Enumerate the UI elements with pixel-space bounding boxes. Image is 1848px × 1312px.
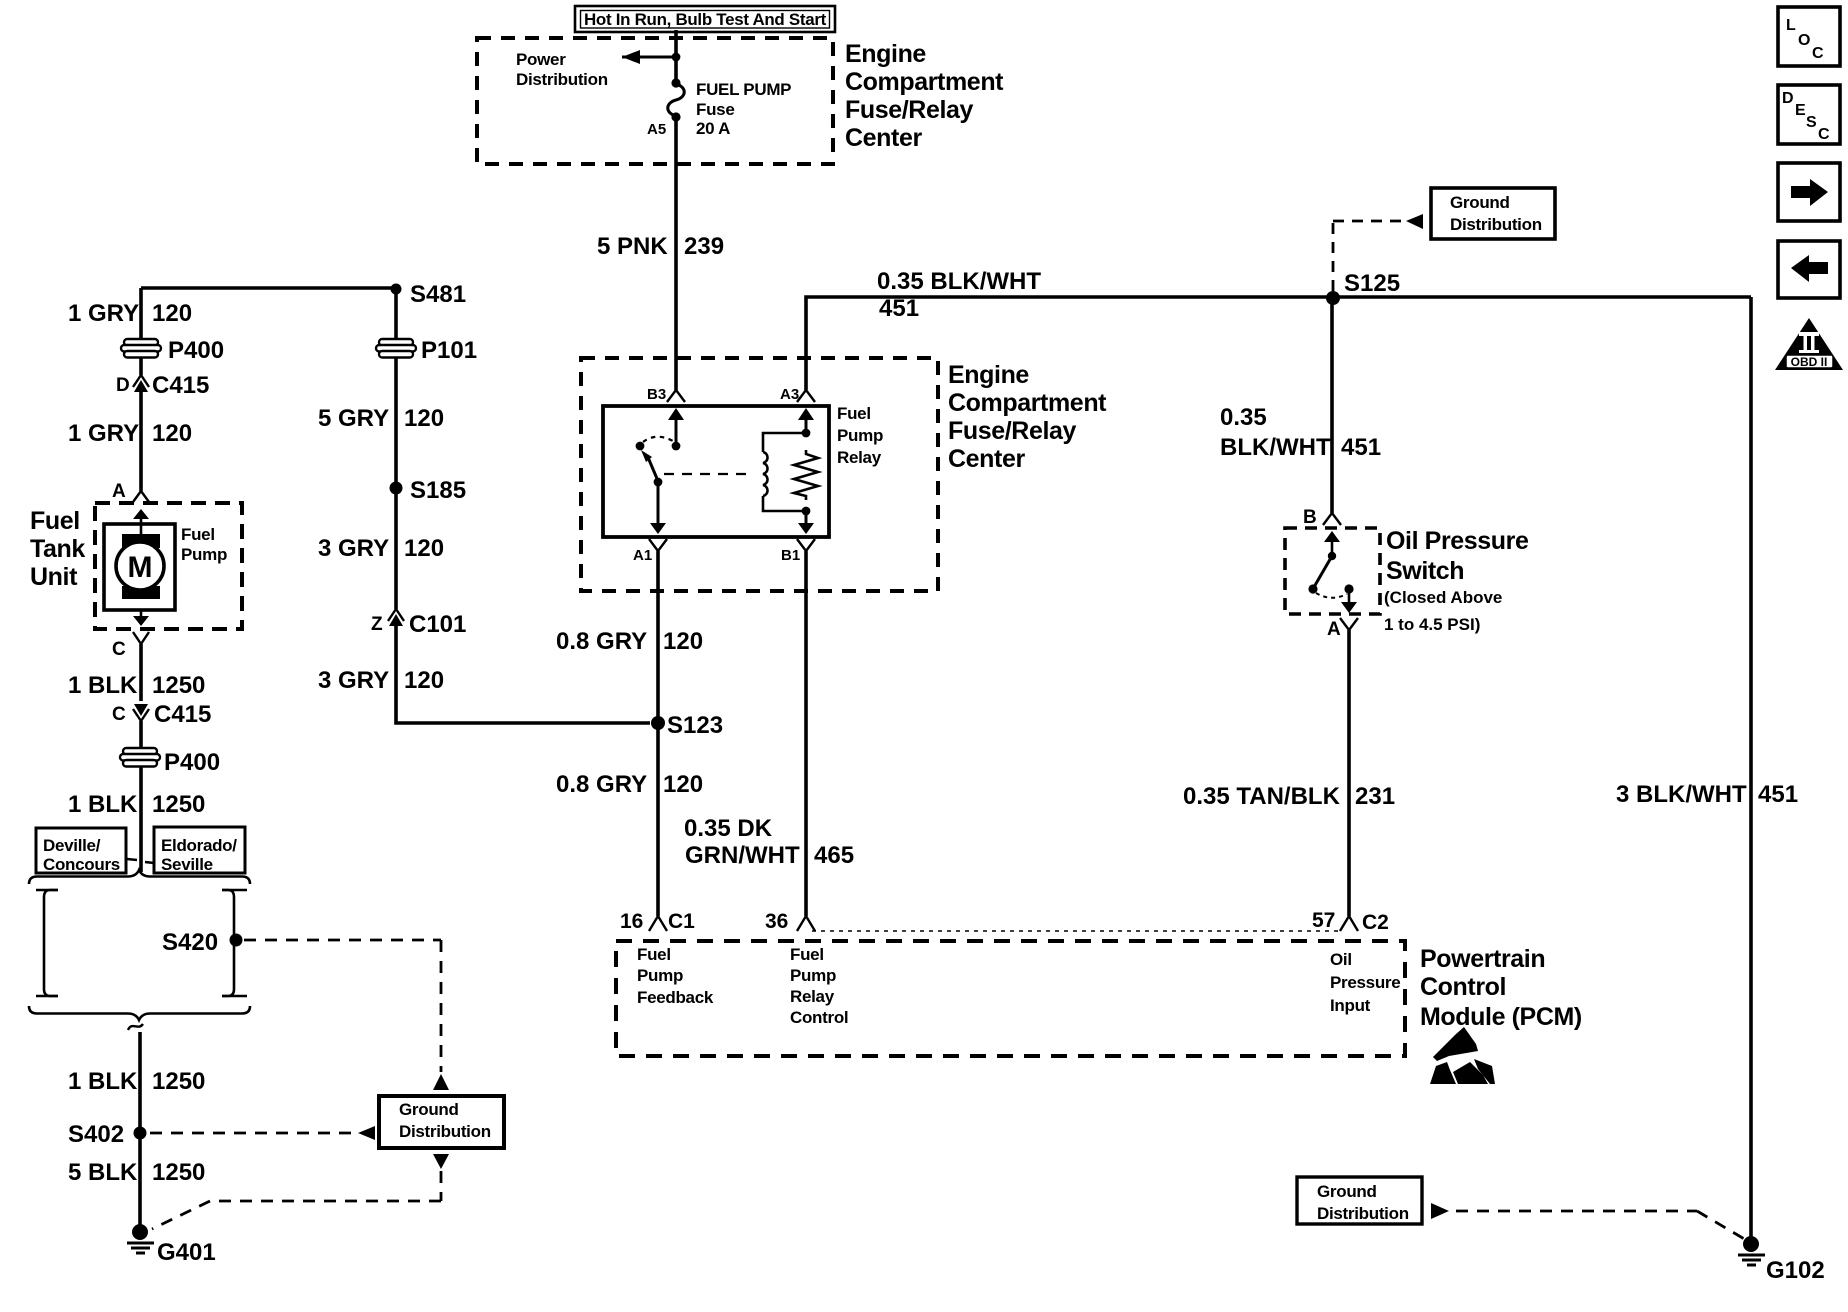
- svg-text:Concours: Concours: [43, 855, 120, 874]
- resistor: [794, 450, 818, 500]
- box: Engine Compartment Fuse/Relay Center (relay, dashed): [581, 358, 938, 591]
- pin A of oil pressure switch: [1327, 618, 1358, 640]
- node S125: [1326, 291, 1340, 305]
- svg-text:S481: S481: [410, 281, 466, 308]
- node: Eldorado/Seville box: [154, 827, 245, 874]
- svg-text:1 BLK: 1 BLK: [68, 791, 138, 818]
- svg-text:C2: C2: [1362, 911, 1389, 934]
- ground G102: [1738, 1236, 1825, 1284]
- svg-text:Seville: Seville: [161, 855, 213, 874]
- svg-text:O: O: [1798, 32, 1810, 49]
- arrow left into S125 dashed run: [1406, 214, 1423, 229]
- svg-text:Distribution: Distribution: [399, 1122, 491, 1141]
- svg-text:A1: A1: [633, 547, 652, 564]
- node: Ground Distribution box (top right): [1431, 188, 1555, 239]
- ground G401: [127, 1224, 216, 1266]
- label: 5 BLK 1250: [68, 1159, 205, 1186]
- wire: below P400 to C415: [139, 358, 143, 375]
- dashed wire: S402 to ground distribution: [150, 1132, 356, 1135]
- svg-text:Compartment: Compartment: [948, 389, 1107, 417]
- icon: LOC: [1778, 7, 1840, 66]
- svg-text:Fuse: Fuse: [696, 100, 734, 119]
- thin dotted internal link pin36 to pin57: [812, 930, 1340, 932]
- wire segment to P400 lower: [139, 721, 143, 749]
- icon: arrow left: [1778, 241, 1840, 298]
- svg-text:Powertrain: Powertrain: [1420, 945, 1545, 973]
- label: 0.35 BLK/WHT 451 (top): [877, 268, 1041, 322]
- coil loop: [763, 433, 806, 452]
- label: 0.35 TAN/BLK 231: [1183, 783, 1395, 810]
- svg-text:0.35 DK: 0.35 DK: [684, 815, 773, 842]
- svg-text:B: B: [1303, 507, 1317, 528]
- svg-text:120: 120: [404, 535, 444, 562]
- svg-text:Switch: Switch: [1386, 557, 1464, 585]
- wire: S125 down to oil pressure switch B: [1330, 297, 1334, 513]
- connector C415 C (lower): [112, 701, 211, 728]
- svg-text:1250: 1250: [152, 1159, 205, 1186]
- svg-text:120: 120: [152, 300, 192, 327]
- svg-text:Distribution: Distribution: [1450, 215, 1542, 234]
- svg-text:Eldorado/: Eldorado/: [161, 836, 237, 855]
- svg-text:A: A: [112, 481, 126, 502]
- svg-text:Distribution: Distribution: [1317, 1204, 1409, 1223]
- svg-text:C: C: [112, 704, 126, 725]
- label: 3 GRY 120 (above C101): [318, 535, 444, 562]
- svg-text:C415: C415: [152, 372, 209, 399]
- node: Deville/Concours box: [36, 828, 126, 874]
- pin 36: [765, 910, 815, 933]
- wire: 5 GRY 120 to S185: [394, 358, 398, 609]
- wire: vertical S481 to P101: [394, 288, 398, 340]
- wire: A1 to S123 to pin 16: [656, 551, 660, 916]
- svg-text:5 PNK: 5 PNK: [597, 233, 668, 260]
- svg-text:(Closed Above: (Closed Above: [1384, 588, 1502, 607]
- svg-text:451: 451: [1341, 434, 1381, 461]
- wire: 1 GRY 120 to fuel tank A: [139, 392, 143, 491]
- brace lower: [29, 1006, 250, 1020]
- icon: arrow right: [1778, 163, 1840, 221]
- label: Powertrain Control Module (PCM): [1420, 945, 1582, 1031]
- svg-text:120: 120: [404, 405, 444, 432]
- dashed wire: box to G401: [152, 1171, 441, 1229]
- svg-text:120: 120: [152, 420, 192, 447]
- pin A of fuel tank unit: [112, 481, 149, 502]
- svg-text:120: 120: [663, 628, 703, 655]
- svg-text:Fuel: Fuel: [837, 404, 871, 423]
- svg-text:1 GRY: 1 GRY: [68, 300, 139, 327]
- label: Fuel Pump Feedback: [637, 945, 714, 1007]
- svg-text:231: 231: [1355, 783, 1395, 810]
- wire: B1 to pin 36: [804, 551, 808, 916]
- svg-text:C: C: [112, 639, 126, 660]
- pin A1: [633, 539, 667, 564]
- box: Fuel Tank Unit (dashed): [95, 503, 242, 629]
- motor M (fuel pump): [104, 524, 175, 610]
- svg-text:451: 451: [879, 295, 919, 322]
- svg-text:1250: 1250: [152, 791, 205, 818]
- svg-text:1250: 1250: [152, 672, 205, 699]
- svg-text:Control: Control: [1420, 973, 1506, 1001]
- svg-text:A: A: [1327, 619, 1341, 640]
- brace upper: [29, 870, 250, 884]
- label: Fuel Pump (tank): [181, 525, 227, 564]
- svg-text:C1: C1: [668, 910, 695, 933]
- svg-text:S123: S123: [667, 712, 723, 739]
- label: 0.35 DK GRN/WHT 465: [684, 815, 854, 869]
- svg-text:0.35 TAN/BLK: 0.35 TAN/BLK: [1183, 783, 1341, 810]
- dashed wire: S420 to ground distribution: [244, 940, 441, 1072]
- svg-text:E: E: [1795, 102, 1806, 119]
- svg-text:Oil: Oil: [1330, 950, 1352, 969]
- wire: 5 PNK 239 from fuse to relay B3: [674, 117, 678, 390]
- svg-text:Pump: Pump: [637, 966, 683, 985]
- wire: oil switch A down to pin 57: [1347, 630, 1351, 916]
- svg-text:B3: B3: [647, 386, 666, 403]
- svg-text:Pressure: Pressure: [1330, 973, 1400, 992]
- svg-text:P101: P101: [421, 337, 477, 364]
- label: Engine Compartment Fuse/Relay Center (relay): [948, 361, 1107, 473]
- wire: A3 up and across to right side: [806, 297, 1751, 390]
- svg-text:Tank: Tank: [30, 535, 85, 563]
- pin 57 C2: [1312, 909, 1389, 934]
- svg-text:C: C: [1812, 45, 1824, 62]
- svg-text:Pump: Pump: [837, 426, 883, 445]
- wire and arrow out of tank pin C: [112, 610, 149, 660]
- svg-text:A5: A5: [647, 121, 666, 138]
- svg-text:D: D: [116, 375, 130, 396]
- connector P400 (upper): [121, 339, 161, 358]
- svg-text:GRN/WHT: GRN/WHT: [685, 842, 800, 869]
- ESD symbol: [1430, 1027, 1495, 1084]
- svg-text:S402: S402: [68, 1121, 124, 1148]
- pin B1: [781, 539, 815, 564]
- svg-text:BLK/WHT: BLK/WHT: [1220, 434, 1331, 461]
- svg-text:G102: G102: [1766, 1257, 1825, 1284]
- icon: DESC: [1778, 85, 1840, 144]
- svg-text:Pump: Pump: [181, 545, 227, 564]
- svg-text:Fuse/Relay: Fuse/Relay: [845, 96, 974, 124]
- wire: power distribution branch with arrow: [622, 50, 680, 64]
- svg-text:Fuel: Fuel: [790, 945, 824, 964]
- svg-text:465: 465: [814, 842, 854, 869]
- box: Engine Compartment Fuse/Relay Center (fuse, dashed): [477, 38, 833, 164]
- fuse: FUEL PUMP Fuse 20 A, A5: [668, 78, 685, 121]
- node S402: [134, 1127, 147, 1140]
- label: 0.35 BLK/WHT 451 (mid): [1220, 404, 1381, 461]
- label: Power Distribution: [516, 50, 608, 89]
- svg-text:1 BLK: 1 BLK: [68, 672, 138, 699]
- label: Fuel Pump Relay Control: [790, 945, 848, 1027]
- wire: 1 BLK 1250 to Deville boxes: [139, 767, 143, 872]
- wire: 3 GRY 120 corner to S123: [396, 626, 650, 723]
- label: 1 GRY 120: [68, 300, 192, 327]
- svg-text:P400: P400: [168, 337, 224, 364]
- label: Fuel Tank Unit: [30, 507, 85, 591]
- svg-text:Pump: Pump: [790, 966, 836, 985]
- svg-text:Ground: Ground: [1450, 193, 1510, 212]
- svg-text:Feedback: Feedback: [637, 988, 714, 1007]
- svg-text:Relay: Relay: [790, 987, 835, 1006]
- label: Oil Pressure Input: [1330, 950, 1400, 1015]
- svg-text:M: M: [128, 551, 153, 584]
- svg-text:Center: Center: [845, 124, 922, 152]
- wire: 1 BLK 1250 to S402 and G401: [138, 1032, 142, 1230]
- connector C415 D: [116, 372, 209, 399]
- svg-text:P400: P400: [164, 749, 220, 776]
- svg-text:FUEL PUMP: FUEL PUMP: [696, 80, 791, 99]
- svg-text:239: 239: [684, 233, 724, 260]
- svg-text:Oil Pressure: Oil Pressure: [1386, 527, 1529, 555]
- wire: hot feed into fuse box: [674, 30, 678, 81]
- wire: right vertical 3 BLK/WHT 451: [1749, 297, 1753, 1242]
- svg-text:0.35: 0.35: [1220, 404, 1267, 431]
- relay switch (left): [636, 408, 684, 534]
- bracket left: [36, 890, 58, 996]
- wire: left drop 1 GRY 120: [139, 288, 143, 340]
- svg-text:Unit: Unit: [30, 563, 78, 591]
- svg-text:C: C: [1818, 126, 1830, 143]
- svg-text:Fuel: Fuel: [637, 945, 671, 964]
- svg-text:120: 120: [404, 667, 444, 694]
- node S420: [230, 934, 243, 947]
- node S123: [651, 716, 665, 730]
- connector C101 Z: [371, 609, 466, 638]
- wire: top-left horizontal to S481: [141, 286, 396, 290]
- label: FUEL PUMP Fuse 20 A: [696, 80, 791, 138]
- svg-text:16: 16: [620, 910, 643, 933]
- label: 5 PNK 239: [597, 233, 724, 260]
- bracket right: [222, 890, 247, 996]
- svg-text:Compartment: Compartment: [845, 68, 1004, 96]
- svg-text:3 GRY: 3 GRY: [318, 667, 389, 694]
- dashed wire: box to G102: [1456, 1211, 1746, 1240]
- svg-text:S420: S420: [162, 929, 218, 956]
- svg-text:Ground: Ground: [1317, 1182, 1377, 1201]
- svg-text:3 BLK/WHT: 3 BLK/WHT: [1616, 781, 1747, 808]
- svg-text:1 GRY: 1 GRY: [68, 420, 139, 447]
- arrow right from box: [1431, 1203, 1449, 1219]
- svg-text:Engine: Engine: [948, 361, 1029, 389]
- node S481: [391, 284, 402, 295]
- arrow into ground distribution box (up): [433, 1074, 449, 1090]
- svg-text:1 to 4.5 PSI): 1 to 4.5 PSI): [1384, 615, 1480, 634]
- dashed wire: S125 up to ground distribution: [1333, 221, 1404, 291]
- pin 16 C1: [620, 910, 695, 933]
- pin B3: [647, 386, 685, 403]
- svg-text:S: S: [1806, 114, 1817, 131]
- svg-text:Fuel: Fuel: [30, 507, 80, 535]
- svg-text:Ground: Ground: [399, 1100, 459, 1119]
- svg-text:Deville/: Deville/: [43, 836, 101, 855]
- pin A3: [780, 386, 815, 403]
- svg-text:S125: S125: [1344, 270, 1400, 297]
- svg-text:Z: Z: [371, 614, 383, 635]
- svg-text:A3: A3: [780, 386, 799, 403]
- svg-text:Relay: Relay: [837, 448, 882, 467]
- svg-text:Fuse/Relay: Fuse/Relay: [948, 417, 1077, 445]
- label: 3 BLK/WHT 451: [1616, 781, 1798, 808]
- relay coil + resistor (right): [763, 408, 818, 534]
- svg-text:57: 57: [1312, 909, 1335, 932]
- svg-text:C101: C101: [409, 611, 466, 638]
- svg-text:Distribution: Distribution: [516, 70, 608, 89]
- arrow below box (down): [433, 1154, 449, 1169]
- svg-text:0.8 GRY: 0.8 GRY: [556, 628, 647, 655]
- svg-text:20 A: 20 A: [696, 119, 730, 138]
- svg-text:C415: C415: [154, 701, 211, 728]
- svg-text:5 GRY: 5 GRY: [318, 405, 389, 432]
- label: Engine Compartment Fuse/Relay Center (top): [845, 40, 1004, 152]
- node S185: [390, 482, 403, 495]
- node: Ground Distribution box (bottom right): [1297, 1177, 1422, 1224]
- svg-text:B1: B1: [781, 547, 800, 564]
- node: Hot In Run box: [575, 6, 835, 32]
- label: Fuel Pump Relay: [837, 404, 883, 467]
- box: Oil Pressure Switch (dashed): [1285, 528, 1380, 614]
- svg-text:Hot In Run, Bulb Test And Star: Hot In Run, Bulb Test And Start: [584, 10, 827, 29]
- svg-text:5 BLK: 5 BLK: [68, 1159, 138, 1186]
- relay box: [603, 406, 829, 537]
- svg-text:451: 451: [1758, 781, 1798, 808]
- wire ticks between variant boxes: [127, 859, 154, 863]
- svg-text:Control: Control: [790, 1008, 848, 1027]
- svg-text:3 GRY: 3 GRY: [318, 535, 389, 562]
- svg-text:S185: S185: [410, 477, 466, 504]
- svg-text:Power: Power: [516, 50, 566, 69]
- label: Oil Pressure Switch: [1384, 527, 1529, 634]
- svg-text:120: 120: [663, 771, 703, 798]
- svg-text:36: 36: [765, 910, 788, 933]
- svg-text:G401: G401: [157, 1239, 216, 1266]
- icon: OBD II triangle: [1775, 318, 1843, 370]
- svg-text:Center: Center: [948, 445, 1025, 473]
- arrow into tank pin A: [133, 509, 149, 535]
- svg-text:Fuel: Fuel: [181, 525, 215, 544]
- svg-text:OBD II: OBD II: [1791, 355, 1828, 369]
- pin B of oil pressure switch: [1303, 507, 1341, 528]
- svg-text:0.8 GRY: 0.8 GRY: [556, 771, 647, 798]
- node: Ground Distribution box (bottom left): [379, 1096, 504, 1148]
- svg-text:Module (PCM): Module (PCM): [1420, 1003, 1582, 1031]
- box: Powertrain Control Module (dashed): [616, 941, 1405, 1056]
- wire: 1 BLK 1250 below tank: [139, 644, 143, 701]
- connector P101: [376, 339, 416, 358]
- squiggle wire restart: [128, 1024, 143, 1030]
- svg-text:D: D: [1782, 90, 1794, 107]
- svg-text:1 BLK: 1 BLK: [68, 1068, 138, 1095]
- arrow left at box: [358, 1126, 375, 1140]
- oil pressure switch internals: [1308, 531, 1357, 613]
- svg-text:1250: 1250: [152, 1068, 205, 1095]
- svg-text:Input: Input: [1330, 996, 1371, 1015]
- svg-text:0.35 BLK/WHT: 0.35 BLK/WHT: [877, 268, 1041, 295]
- relay dashed actuation link: [664, 473, 750, 475]
- svg-text:Engine: Engine: [845, 40, 926, 68]
- connector P400 (lower): [120, 748, 160, 767]
- svg-text:L: L: [1786, 17, 1796, 34]
